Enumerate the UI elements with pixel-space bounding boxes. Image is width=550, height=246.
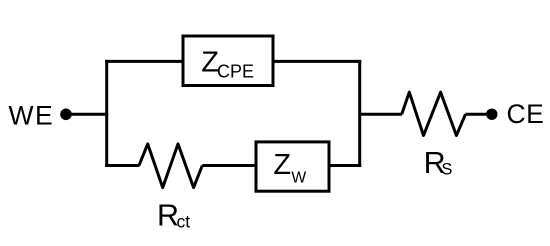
node WE — [9, 101, 55, 131]
Warburg element box — [256, 142, 329, 191]
CPE element box — [183, 36, 273, 86]
label Z_CPE — [201, 47, 254, 82]
label Z_W — [273, 149, 306, 187]
svg-text:RS: RS — [424, 146, 453, 180]
wire top branch left — [105, 60, 183, 63]
wire bottom branch left — [105, 164, 139, 167]
label R_ct — [157, 198, 190, 232]
wire left junction vertical — [105, 60, 108, 167]
wire Z_W to right junction — [328, 164, 361, 167]
wire R_S to CE dot — [466, 113, 492, 116]
terminal dot WE — [60, 109, 72, 121]
resistor R_S — [402, 92, 466, 135]
wire right junction to R_S — [360, 113, 402, 116]
wire right junction vertical — [358, 60, 361, 167]
wire WE to left junction — [66, 113, 108, 116]
wire top branch right — [273, 60, 361, 63]
svg-text:CE: CE — [507, 99, 545, 129]
node CE — [507, 99, 545, 129]
label R_S — [424, 146, 453, 180]
terminal dot CE — [486, 109, 497, 120]
resistor R_ct — [139, 144, 202, 188]
svg-text:WE: WE — [9, 101, 55, 131]
svg-text:Rct: Rct — [157, 198, 190, 232]
wire R_ct to Z_W — [202, 164, 257, 167]
